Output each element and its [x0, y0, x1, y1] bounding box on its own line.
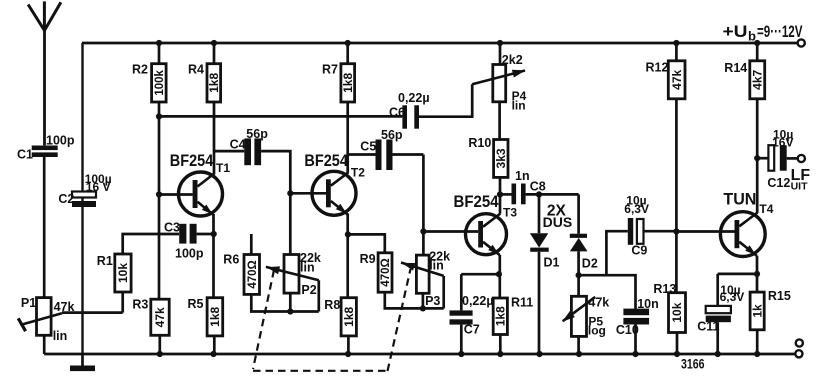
svg-text:C1: C1 — [17, 148, 33, 162]
svg-text:C10: C10 — [616, 323, 639, 337]
svg-text:TUN: TUN — [723, 190, 756, 208]
svg-text:P2: P2 — [301, 283, 316, 297]
svg-text:C7: C7 — [464, 323, 480, 337]
svg-text:C12: C12 — [767, 176, 790, 190]
svg-text:47k: 47k — [670, 69, 684, 89]
svg-text:16 V: 16 V — [86, 180, 111, 194]
svg-text:D1: D1 — [544, 256, 560, 270]
svg-text:C3: C3 — [164, 220, 180, 234]
svg-text:470Ω: 470Ω — [380, 258, 392, 286]
svg-text:10n: 10n — [637, 297, 659, 311]
svg-text:T3: T3 — [503, 206, 517, 220]
svg-text:T2: T2 — [351, 165, 365, 179]
svg-text:T4: T4 — [759, 202, 773, 216]
svg-text:DUS: DUS — [543, 214, 573, 230]
svg-text:1n: 1n — [515, 169, 530, 183]
svg-text:R13: R13 — [653, 282, 676, 296]
svg-text:R7: R7 — [322, 63, 338, 77]
svg-text:2k2: 2k2 — [502, 53, 523, 67]
svg-text:4k7: 4k7 — [750, 69, 764, 89]
svg-text:1k: 1k — [750, 304, 764, 318]
svg-text:C11: C11 — [697, 319, 719, 333]
svg-text:BF254: BF254 — [304, 152, 348, 170]
svg-text:56p: 56p — [246, 127, 268, 141]
svg-text:10k: 10k — [670, 302, 684, 322]
svg-text:UIT: UIT — [791, 180, 809, 192]
svg-text:D2: D2 — [582, 257, 598, 271]
svg-text:C2: C2 — [58, 192, 74, 206]
svg-text:1k8: 1k8 — [494, 306, 508, 326]
svg-text:R1: R1 — [97, 254, 113, 268]
svg-text:C8: C8 — [530, 179, 546, 193]
svg-text:R9: R9 — [360, 252, 376, 266]
svg-text:3k3: 3k3 — [494, 148, 508, 168]
svg-text:log: log — [588, 324, 606, 338]
svg-text:100p: 100p — [175, 247, 204, 261]
svg-text:47k: 47k — [54, 300, 75, 314]
svg-text:C5: C5 — [360, 140, 376, 154]
svg-text:b: b — [748, 29, 756, 44]
svg-text:1k8: 1k8 — [342, 306, 356, 326]
svg-text:0,22µ: 0,22µ — [398, 91, 430, 105]
svg-text:lin: lin — [53, 329, 68, 343]
svg-text:470Ω: 470Ω — [247, 260, 259, 288]
svg-text:=9···12V: =9···12V — [757, 22, 803, 41]
svg-text:47k: 47k — [588, 296, 609, 310]
svg-text:R4: R4 — [188, 63, 204, 77]
svg-text:BF254: BF254 — [170, 152, 214, 170]
svg-text:R11: R11 — [511, 295, 533, 309]
svg-text:1k8: 1k8 — [207, 73, 221, 93]
svg-text:16V: 16V — [772, 135, 793, 149]
svg-text:56p: 56p — [381, 128, 403, 142]
svg-text:R6: R6 — [223, 253, 239, 267]
svg-text:lin: lin — [300, 261, 315, 275]
svg-text:1k8: 1k8 — [341, 73, 355, 93]
svg-text:lin: lin — [429, 259, 444, 273]
svg-text:3166: 3166 — [681, 357, 705, 372]
svg-text:T1: T1 — [216, 161, 230, 175]
svg-text:+U: +U — [723, 22, 748, 41]
svg-text:P3: P3 — [425, 294, 440, 308]
svg-text:R14: R14 — [724, 61, 747, 75]
svg-text:R5: R5 — [188, 297, 204, 311]
svg-text:lin: lin — [512, 98, 526, 112]
svg-text:6,3V: 6,3V — [624, 202, 649, 216]
svg-text:R10: R10 — [468, 136, 491, 150]
svg-text:47k: 47k — [153, 307, 167, 327]
svg-text:R15: R15 — [768, 289, 791, 303]
svg-text:R12: R12 — [646, 60, 669, 74]
svg-text:0,22µ: 0,22µ — [462, 294, 494, 308]
svg-text:R8: R8 — [324, 298, 340, 312]
svg-text:P1: P1 — [21, 296, 36, 310]
svg-text:C9: C9 — [631, 244, 647, 258]
svg-text:100p: 100p — [46, 134, 75, 148]
svg-text:BF254: BF254 — [454, 193, 500, 211]
svg-text:R2: R2 — [132, 63, 148, 77]
svg-text:100k: 100k — [154, 69, 166, 95]
svg-text:C6: C6 — [389, 105, 405, 119]
svg-text:10k: 10k — [116, 263, 130, 283]
svg-text:C4: C4 — [230, 138, 246, 152]
svg-text:1k8: 1k8 — [208, 306, 222, 326]
svg-text:R3: R3 — [132, 298, 148, 312]
svg-text:6,3V: 6,3V — [720, 290, 745, 304]
